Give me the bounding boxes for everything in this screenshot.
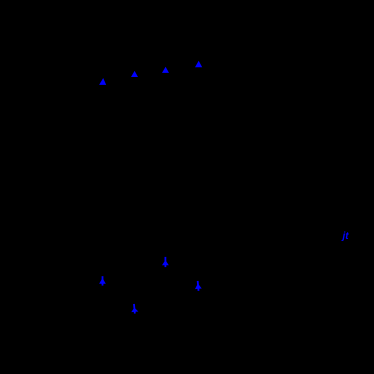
arrowhead marker 3 xyxy=(162,67,169,73)
stemmed arrow A2 (bottom cluster, highest) xyxy=(162,257,169,267)
svg-text:jt: jt xyxy=(341,231,350,242)
arrowhead marker 2 xyxy=(131,71,138,77)
label text "jt" (small blue annotation, right side) xyxy=(341,231,350,242)
arrowhead marker 4 (top-right of ascending series) xyxy=(195,61,202,67)
stemmed arrow A3 (bottom cluster, right) xyxy=(194,281,202,292)
arrowhead marker 1 (top-left of ascending series) xyxy=(99,78,106,85)
stemmed arrow A1 (bottom cluster, left) xyxy=(99,276,106,285)
stemmed arrow A4 (bottom cluster, lowest) xyxy=(131,304,139,314)
